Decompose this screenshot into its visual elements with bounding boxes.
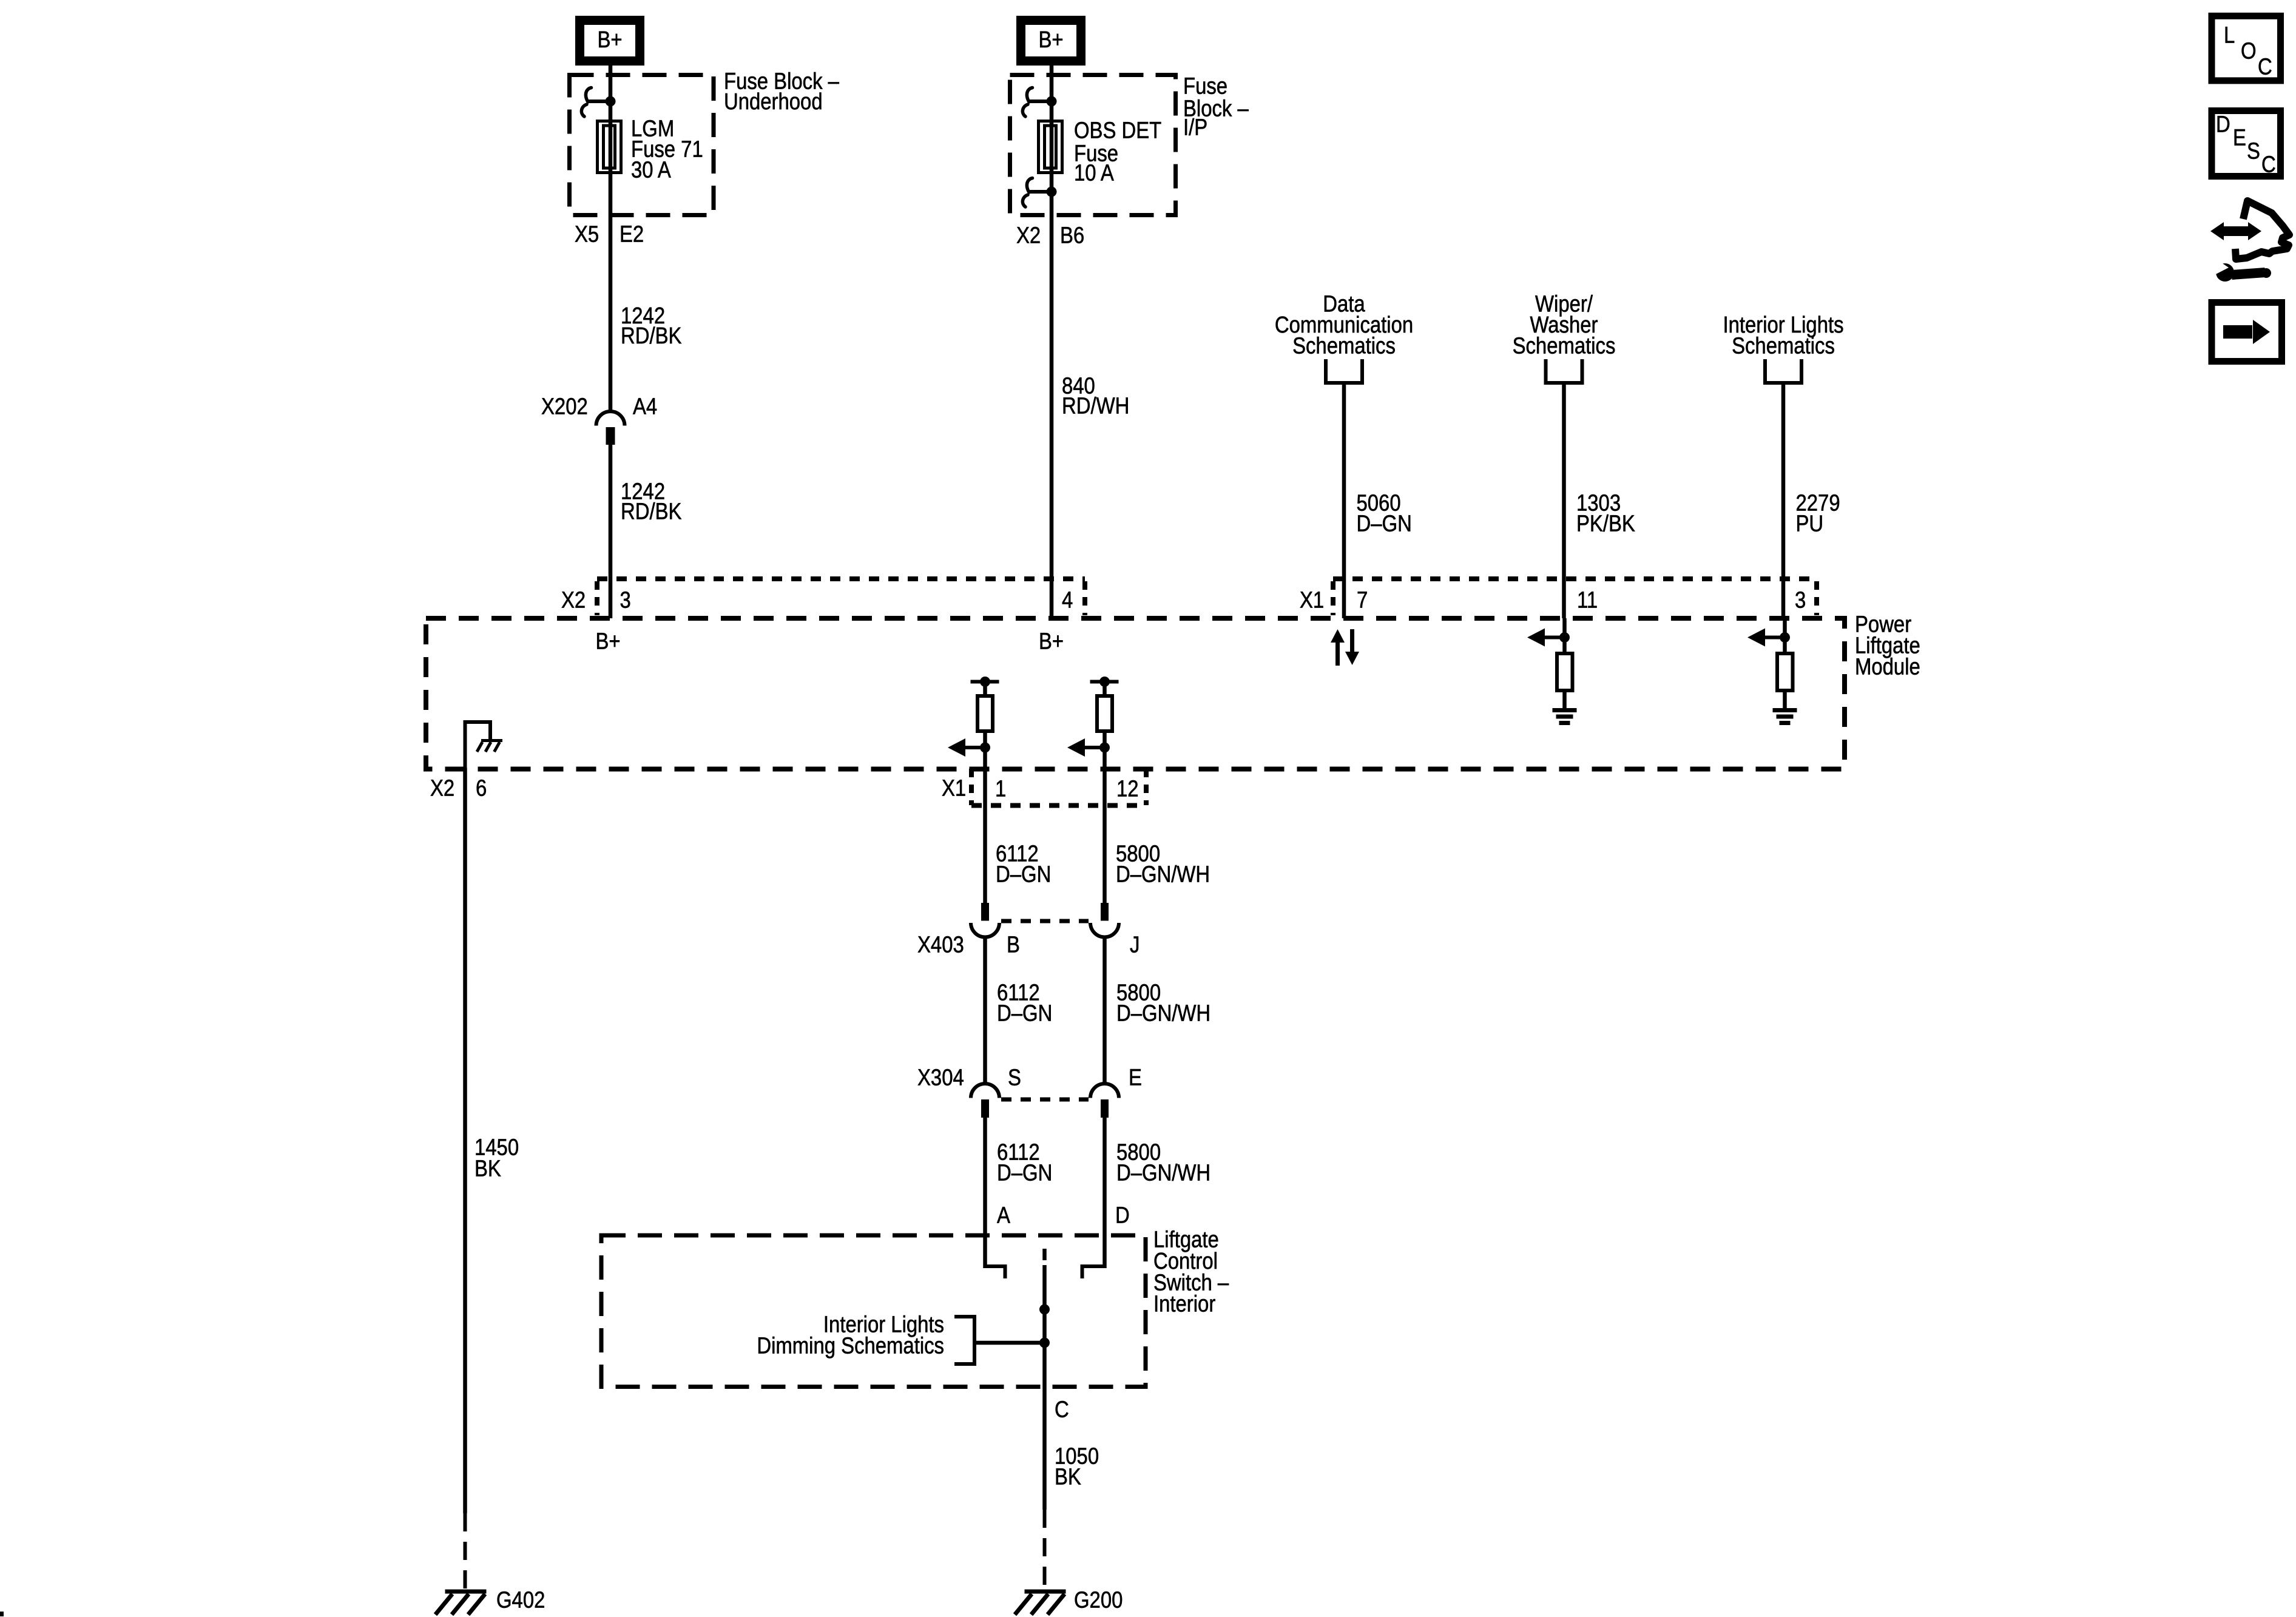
svg-text:Module: Module — [1855, 653, 1920, 680]
wire resistor to ground (pin 3) — [1783, 690, 1787, 710]
resistor (pin 3 pull-up) — [1777, 653, 1793, 690]
wire label 6112 D-GN (second) — [997, 979, 1052, 1026]
svg-text:B+: B+ — [1039, 628, 1064, 654]
svg-text:X5: X5 — [575, 221, 599, 247]
icon wrench — [2206, 252, 2271, 282]
ground G200 symbol — [1015, 1592, 1066, 1615]
pin labels X2 | B6 — [1016, 222, 1084, 248]
connector X1 strip (module pins 1,12) dotted — [971, 769, 1146, 806]
svg-text:RD/BK: RD/BK — [621, 323, 682, 349]
svg-text:A4: A4 — [633, 393, 657, 419]
junction dot at OBS DET fuse output — [1047, 187, 1057, 197]
svg-text:OBS DET: OBS DET — [1074, 117, 1161, 143]
wire resistor to ground (pin 11) — [1562, 690, 1567, 710]
ground symbol (pin 3 branch) — [1773, 711, 1797, 723]
svg-text:X2: X2 — [1016, 222, 1041, 248]
svg-text:S: S — [1008, 1064, 1021, 1090]
inline connector X202 pin A4 — [596, 411, 625, 445]
svg-text:30 A: 30 A — [631, 157, 671, 183]
svg-text:L: L — [2224, 22, 2235, 48]
wire label 5800 D-GN/WH (first) — [1116, 840, 1210, 887]
svg-text:4: 4 — [1062, 587, 1073, 613]
resistor (pin 11 pull-up) — [1557, 653, 1573, 690]
wire 1242 RD/BK from B+ to X202 — [609, 66, 613, 412]
svg-text:7: 7 — [1357, 587, 1368, 613]
svg-text:Dimming Schematics: Dimming Schematics — [757, 1332, 944, 1359]
svg-text:A: A — [997, 1202, 1010, 1228]
icon LOC box — [2212, 16, 2281, 81]
resistor (pin 12 branch) — [1097, 696, 1112, 731]
pin labels X2 | 6 — [430, 775, 487, 801]
svg-text:X403: X403 — [917, 931, 964, 957]
svg-text:D–GN: D–GN — [997, 1000, 1052, 1026]
wire label 1242 RD/BK (lower) — [621, 478, 682, 524]
svg-text:J: J — [1130, 931, 1140, 957]
page artifact dot bottom-left — [0, 1612, 4, 1616]
svg-text:X1: X1 — [1300, 587, 1324, 613]
switch box label Liftgate Control Switch - Interior — [1153, 1226, 1229, 1317]
wire label 1050 BK — [1055, 1443, 1099, 1490]
svg-text:O: O — [2241, 38, 2257, 64]
ground G402 symbol — [436, 1592, 487, 1615]
dashed wire to G402 — [464, 1513, 467, 1592]
svg-text:12: 12 — [1116, 775, 1139, 802]
internal resistor branch pin 1: top bar — [971, 677, 999, 687]
svg-text:11: 11 — [1577, 587, 1598, 613]
svg-text:D–GN: D–GN — [996, 861, 1051, 887]
svg-text:G402: G402 — [496, 1587, 545, 1613]
svg-text:C: C — [2258, 53, 2272, 79]
svg-text:Underhood: Underhood — [724, 89, 823, 115]
svg-text:B+: B+ — [1038, 27, 1063, 53]
label Fuse Block - I/P — [1183, 73, 1249, 140]
svg-text:E2: E2 — [620, 221, 644, 247]
internal wire pin 11 branch — [1562, 618, 1567, 652]
fuse LGM Fuse 71 30 A — [598, 121, 621, 173]
dashed wire to G200 — [1043, 1510, 1047, 1592]
switch fixed contact A — [985, 1266, 1005, 1278]
svg-text:3: 3 — [1795, 587, 1806, 613]
inline connector X304 pin S (dome + nub) — [971, 1084, 999, 1118]
svg-text:PK/BK: PK/BK — [1576, 510, 1635, 536]
wire 840 RD/WH from B+ to module pin 4 — [1050, 66, 1054, 618]
off-page reference Wiper/ ... Schematics — [1513, 291, 1616, 359]
svg-text:6: 6 — [476, 775, 487, 801]
svg-text:B: B — [1007, 931, 1020, 957]
wire bar to resistor (pin 12) — [1102, 682, 1107, 697]
svg-text:D–GN/WH: D–GN/WH — [1116, 861, 1210, 887]
internal wire pin 3 branch — [1783, 618, 1787, 652]
power symbol B+ (right feed) — [1021, 21, 1081, 61]
resistor (pin 1 branch) — [977, 696, 993, 731]
svg-text:G200: G200 — [1074, 1587, 1123, 1613]
svg-text:3: 3 — [620, 587, 631, 613]
value label LGM Fuse 71 30 A — [631, 115, 703, 183]
wire resistor to pin 1 — [983, 731, 987, 903]
bracket under Wiper/ reference — [1544, 359, 1584, 383]
wire label 5800 D-GN/WH (second) — [1116, 979, 1210, 1026]
ground symbol (pin 11 branch) — [1553, 711, 1577, 723]
connector plane dashes X403 — [1001, 919, 1089, 923]
label Fuse Block - Underhood — [724, 68, 839, 114]
wire label 1450 BK — [474, 1134, 519, 1181]
wire bar to resistor (pin 1) — [983, 682, 987, 697]
wire to interior lights dimming — [974, 1341, 1045, 1345]
connector plane dashes X304 — [1001, 1098, 1089, 1102]
icon diagnostic hand with double arrow — [2210, 201, 2289, 259]
internal serial data arrows at pin 7 — [1331, 629, 1359, 666]
wire label 6112 D-GN (third) — [997, 1139, 1052, 1186]
svg-text:1: 1 — [995, 775, 1006, 802]
wire label 1303 PK/BK — [1576, 490, 1635, 536]
inline connector X403 pin J — [1090, 903, 1119, 937]
svg-text:S: S — [2247, 138, 2260, 164]
svg-text:D–GN/WH: D–GN/WH — [1116, 1160, 1210, 1186]
junction dot on pole (upper) — [1039, 1305, 1050, 1315]
svg-text:X2: X2 — [561, 587, 586, 613]
wire label 1242 RD/BK (upper) — [621, 303, 682, 349]
fuse OBS DET Fuse 10 A — [1039, 121, 1062, 173]
switch fixed contact D — [1082, 1266, 1105, 1278]
power symbol B+ (left feed) — [580, 21, 640, 61]
junction dot at OBS DET fuse input — [1047, 96, 1057, 107]
icon forward arrow box — [2212, 303, 2282, 362]
svg-text:X304: X304 — [917, 1064, 964, 1090]
svg-text:RD/BK: RD/BK — [621, 498, 682, 524]
wire S to switch pin A — [983, 1118, 987, 1268]
junction dot on pole (dimming tap) — [1039, 1338, 1050, 1348]
svg-text:B+: B+ — [597, 27, 622, 53]
off-page reference Data ... Schematics — [1275, 291, 1413, 359]
icon DESC box — [2212, 111, 2281, 178]
svg-text:D: D — [2216, 111, 2230, 137]
bracket under Interior Lights reference — [1763, 359, 1803, 383]
Power Liftgate Module dashed box — [426, 618, 1845, 769]
svg-text:B6: B6 — [1060, 222, 1084, 248]
wire J to E (5800) — [1102, 936, 1107, 1084]
wire 1242 RD/BK lower segment — [609, 445, 613, 618]
junction dot at LGM fuse input — [606, 96, 616, 107]
internal resistor branch pin 12: top bar — [1090, 677, 1119, 687]
internal ground wire at pin X2-6 — [465, 722, 491, 768]
labels X202 / A4 — [541, 393, 657, 419]
pin labels X5 | E2 — [575, 221, 644, 247]
svg-text:X2: X2 — [430, 775, 454, 801]
labels X403 / B / J — [917, 931, 1140, 957]
signal arrow at pin 12 — [1067, 738, 1110, 757]
svg-text:Schematics: Schematics — [1513, 333, 1616, 359]
fuse terminal clip (underhood fuse block) — [581, 88, 610, 117]
off-page reference Interior Lights ... Schematics — [1723, 312, 1843, 359]
fuse terminal clip lower (I/P fuse block) — [1022, 178, 1052, 208]
fuse block - I/P dashed outline — [1010, 75, 1176, 215]
wire from Wiper/ reference to module — [1562, 383, 1566, 618]
svg-text:C: C — [2261, 151, 2276, 177]
bracket under Data reference — [1324, 359, 1364, 383]
chassis ground symbol inside module — [477, 741, 502, 752]
svg-text:Schematics: Schematics — [1732, 333, 1835, 359]
wire label 2279 PU — [1796, 490, 1840, 536]
wire resistor to pin 12 — [1102, 731, 1107, 903]
svg-text:RD/WH: RD/WH — [1062, 393, 1129, 419]
svg-text:C: C — [1055, 1396, 1069, 1422]
svg-text:I/P: I/P — [1183, 114, 1207, 140]
svg-text:D: D — [1115, 1202, 1130, 1228]
svg-text:BK: BK — [474, 1155, 501, 1181]
wire E to switch pin D — [1102, 1118, 1107, 1268]
label Interior Lights Dimming Schematics — [757, 1311, 944, 1359]
svg-text:PU: PU — [1796, 510, 1824, 536]
labels X304 / S / E — [917, 1064, 1142, 1090]
wire label 840 RD/WH — [1062, 373, 1129, 419]
inline connector X403 pin B (male nub + female cup) — [971, 903, 999, 937]
connector X1 strip (module pins 7,11,3) dotted — [1333, 579, 1817, 615]
bracket interior lights dimming reference — [954, 1317, 974, 1364]
svg-text:Interior: Interior — [1153, 1291, 1215, 1317]
switch pole wire — [1042, 1265, 1047, 1510]
fuse terminal clip upper (I/P fuse block) — [1022, 88, 1052, 117]
wire 1450 BK from module pin 6 — [463, 768, 467, 1513]
svg-text:E: E — [1129, 1064, 1142, 1090]
svg-text:B+: B+ — [596, 628, 621, 654]
connector X2 strip (module pins 3,4) dotted — [597, 579, 1085, 615]
svg-text:10 A: 10 A — [1074, 160, 1114, 186]
switch movable contact (dashed pole) — [1042, 1249, 1047, 1260]
svg-text:X202: X202 — [541, 393, 588, 419]
svg-text:Schematics: Schematics — [1292, 333, 1396, 359]
wire label 5060 D–GN — [1357, 490, 1412, 536]
fuse block - underhood dashed outline — [570, 75, 714, 215]
wire from Interior Lights reference to module — [1781, 383, 1786, 618]
wire from Data reference to module — [1342, 383, 1346, 618]
svg-text:X1: X1 — [942, 775, 966, 801]
wire label 5800 D-GN/WH (third) — [1116, 1139, 1210, 1186]
wire B to S (6112) — [983, 936, 987, 1084]
svg-text:D–GN: D–GN — [997, 1160, 1052, 1186]
Liftgate Control Switch - Interior dashed box — [601, 1235, 1146, 1387]
inline connector X304 pin E — [1090, 1084, 1119, 1118]
signal arrow at pin 1 — [948, 738, 990, 757]
value label OBS DET Fuse 10 A — [1074, 117, 1161, 186]
wire label 6112 D-GN (first) — [996, 840, 1051, 887]
module name label Power Liftgate Module — [1855, 611, 1920, 680]
signal arrow at pin 11 — [1527, 629, 1570, 647]
signal arrow at pin 3 — [1747, 629, 1790, 647]
svg-text:E: E — [2233, 124, 2246, 150]
svg-text:BK: BK — [1055, 1463, 1081, 1490]
svg-text:D–GN/WH: D–GN/WH — [1116, 1000, 1210, 1026]
svg-text:D–GN: D–GN — [1357, 510, 1412, 536]
